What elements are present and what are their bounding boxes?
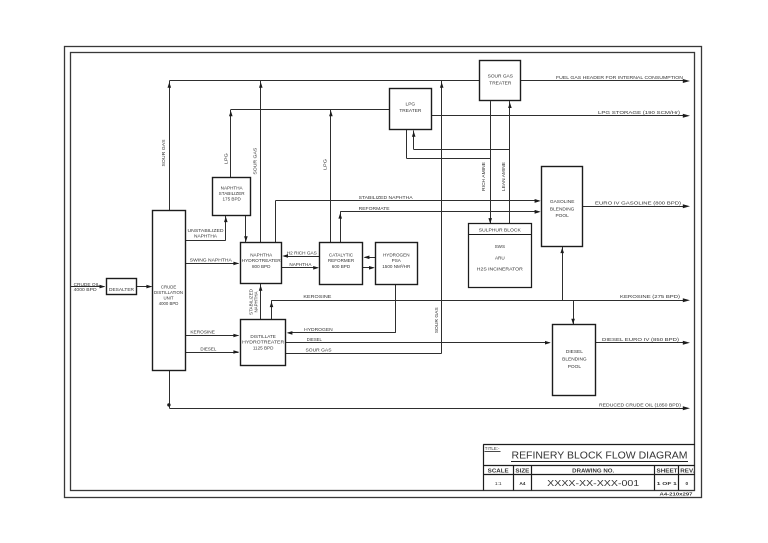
svg-text:TITLE:-: TITLE:- — [485, 446, 500, 451]
svg-text:FUEL GAS HEADER FOR INTERNAL C: FUEL GAS HEADER FOR INTERNAL CONSUMPTION — [556, 75, 684, 81]
wire LPG feed header (y=109.5) — [231, 109, 390, 111]
unit DESALTER — [107, 279, 137, 295]
svg-text:NAPHTHA: NAPHTHA — [221, 185, 244, 190]
svg-text:800 BPD: 800 BPD — [252, 264, 271, 269]
wire lean amine branch to LPG treater — [414, 149, 510, 151]
svg-text:LPG: LPG — [323, 159, 328, 170]
unit DISTILLATE HYDROTREATER — [241, 320, 286, 366]
unit CATALYTIC REFORMER — [320, 243, 363, 285]
svg-text:KEROSINE (275 BPD): KEROSINE (275 BPD) — [620, 294, 680, 300]
unit SULPHUR BLOCK — [469, 224, 532, 288]
wire desalter to CDU — [136, 286, 152, 288]
wire hydrogen PSA to reformer — [365, 257, 376, 259]
svg-text:REFINERY BLOCK FLOW DIAGRAM: REFINERY BLOCK FLOW DIAGRAM — [512, 450, 688, 461]
svg-text:LPG: LPG — [406, 102, 416, 108]
svg-text:LPG: LPG — [223, 153, 228, 164]
junction dot reduced crude elbow — [167, 403, 170, 406]
svg-text:STABILIZED NAPHTHA: STABILIZED NAPHTHA — [359, 195, 414, 201]
arrow stabilized naphtha into gasoline pool — [535, 199, 541, 203]
svg-text:H2S INCINERATOR: H2S INCINERATOR — [477, 267, 524, 272]
wire LPG storage product line — [431, 115, 684, 117]
svg-text:BLENDING: BLENDING — [562, 357, 587, 363]
wire fuel gas header (y=81) — [169, 80, 684, 82]
svg-text:NAPHTHA: NAPHTHA — [289, 262, 312, 268]
unit HYDROGEN PSA — [376, 243, 418, 285]
page outer border — [65, 47, 702, 498]
svg-text:600 BPD: 600 BPD — [332, 264, 351, 269]
svg-text:SIZE: SIZE — [515, 469, 530, 475]
svg-text:H2 RICH GAS: H2 RICH GAS — [287, 251, 317, 257]
wire euro iv gasoline product line — [583, 206, 685, 208]
wire NHT sour gas riser — [260, 81, 262, 242]
wire DHT stabilized naphtha to NHT — [260, 284, 262, 320]
svg-text:STABILIZER: STABILIZER — [219, 191, 246, 196]
svg-text:UNIT: UNIT — [164, 295, 174, 300]
wire stabilized naphtha product line — [275, 200, 538, 202]
unit GASOLINE BLENDING POOL — [542, 167, 583, 247]
svg-text:BLENDING: BLENDING — [550, 206, 575, 212]
svg-text:REDUCED CRUDE OIL (1850 BPD): REDUCED CRUDE OIL (1850 BPD) — [599, 403, 681, 409]
svg-text:KEROSINE: KEROSINE — [190, 330, 215, 336]
wire swing naphtha from CDU — [185, 263, 238, 265]
svg-text:PSA: PSA — [392, 258, 402, 263]
wire rich amine from LPG treater — [406, 129, 408, 158]
svg-text:HYDROTREATER: HYDROTREATER — [242, 258, 282, 263]
svg-text:SCALE: SCALE — [488, 469, 510, 475]
wire reformate product line — [340, 211, 538, 213]
svg-text:LEAN AMINE: LEAN AMINE — [501, 162, 506, 191]
wire unstabilized naphtha from CDU — [185, 240, 226, 242]
unit NAPHTHA STABILIZER — [213, 178, 251, 216]
svg-text:1:1: 1:1 — [495, 481, 502, 487]
svg-text:DIESEL: DIESEL — [200, 346, 216, 352]
svg-text:CRUDE: CRUDE — [161, 284, 176, 289]
wire rich amine line — [490, 101, 492, 224]
wire net gas reformer to PSA — [363, 267, 374, 269]
svg-text:ARU: ARU — [495, 255, 505, 260]
svg-text:0: 0 — [685, 481, 688, 487]
wire reduced crude oil line — [169, 371, 171, 408]
svg-text:SWING NAPHTHA: SWING NAPHTHA — [190, 258, 233, 264]
wire DHT sour gas line — [285, 353, 441, 355]
wire reformer reformate riser — [340, 212, 342, 242]
unit DIESEL BLENDING POOL — [553, 325, 596, 396]
svg-text:SWS: SWS — [495, 244, 505, 249]
svg-text:LPG STORAGE (190 SCM/Hr): LPG STORAGE (190 SCM/Hr) — [598, 110, 681, 116]
page inner border — [71, 53, 695, 491]
svg-text:4000 BPD: 4000 BPD — [74, 287, 98, 293]
wire crude oil feed — [71, 286, 105, 288]
wire diesel CDU to DHT — [185, 352, 238, 354]
svg-text:XXXX-XX-XXX-001: XXXX-XX-XXX-001 — [547, 479, 639, 488]
svg-text:SULPHUR BLOCK: SULPHUR BLOCK — [479, 228, 522, 234]
svg-text:NAPHTHA: NAPHTHA — [253, 291, 258, 313]
svg-text:1 OF 1: 1 OF 1 — [657, 481, 677, 487]
wire stabilizer bottoms to NHT — [245, 215, 247, 242]
svg-text:NAPHTHA: NAPHTHA — [194, 233, 218, 239]
svg-text:DISTILLATION: DISTILLATION — [154, 290, 183, 295]
svg-text:HYDROGEN: HYDROGEN — [383, 252, 410, 257]
svg-text:DIESEL: DIESEL — [566, 349, 583, 355]
wire stabilizer LPG riser — [230, 110, 232, 178]
svg-text:DISTILLATE: DISTILLATE — [250, 334, 275, 339]
svg-text:KEROSINE: KEROSINE — [303, 294, 331, 300]
svg-text:RICH AMINE: RICH AMINE — [481, 162, 486, 191]
title block frame — [483, 444, 695, 446]
wire kerosine product line — [272, 300, 685, 302]
svg-text:NAPHTHA: NAPHTHA — [250, 252, 273, 257]
svg-text:4000 BPD: 4000 BPD — [159, 301, 179, 306]
svg-text:DIESEL EURO IV (850 BPD): DIESEL EURO IV (850 BPD) — [602, 337, 679, 343]
wire main sour gas riser — [441, 81, 443, 353]
svg-text:A4-210x297: A4-210x297 — [660, 492, 694, 497]
unit SOUR GAS TREATER — [480, 61, 521, 101]
svg-text:POOL: POOL — [555, 213, 569, 219]
unit LPG TREATER — [390, 89, 432, 130]
svg-text:REFORMER: REFORMER — [328, 258, 355, 263]
svg-text:CATALYTIC: CATALYTIC — [329, 252, 354, 257]
svg-text:DESALTER: DESALTER — [109, 287, 135, 293]
svg-text:SOUR GAS: SOUR GAS — [161, 140, 166, 167]
svg-text:A4: A4 — [519, 481, 525, 487]
svg-text:SOUR GAS: SOUR GAS — [253, 148, 258, 175]
svg-text:175 BPD: 175 BPD — [222, 197, 241, 202]
wire H2 rich gas reformer to NHT — [285, 256, 320, 258]
wire naphtha NHT to reformer — [281, 267, 317, 269]
wire DHT kerosine riser — [271, 300, 273, 320]
svg-text:SOUR GAS: SOUR GAS — [306, 348, 332, 354]
svg-text:HYDROGEN: HYDROGEN — [304, 327, 333, 333]
wire diesel DHT to diesel pool — [285, 342, 549, 344]
svg-text:EURO IV GASOLINE (800 BPD): EURO IV GASOLINE (800 BPD) — [595, 201, 681, 207]
svg-text:POOL: POOL — [568, 364, 582, 370]
wire kerosine branch to diesel pool — [573, 300, 575, 324]
svg-text:1500 NM³/HR: 1500 NM³/HR — [382, 264, 411, 269]
svg-text:TREATER: TREATER — [489, 80, 512, 86]
svg-text:SOUR GAS: SOUR GAS — [434, 307, 439, 333]
svg-text:DIESEL: DIESEL — [307, 337, 322, 343]
wire hydrogen PSA to DHT — [395, 284, 397, 333]
svg-text:DRAWING NO.: DRAWING NO. — [572, 469, 615, 475]
arrow reformate into gasoline pool — [535, 210, 541, 214]
svg-text:SOUR GAS: SOUR GAS — [488, 73, 513, 79]
wire kerosine branch to gasoline pool — [562, 246, 564, 300]
wire NHT stabilized naphtha riser — [275, 201, 277, 242]
unit CRUDE DISTILLATION UNIT — [153, 211, 186, 371]
svg-text:REFORMATE: REFORMATE — [359, 206, 390, 212]
svg-text:SHEET: SHEET — [657, 469, 678, 475]
svg-text:CRUDE OIL: CRUDE OIL — [74, 282, 100, 288]
wire reformer LPG riser — [330, 110, 332, 243]
unit NAPHTHA HYDROTREATER — [241, 243, 282, 284]
wire diesel euro iv product line — [596, 342, 684, 344]
wire lean amine line — [509, 101, 511, 224]
svg-text:TREATER: TREATER — [399, 108, 422, 114]
svg-text:GASOLINE: GASOLINE — [550, 199, 575, 205]
wire CDU sour gas riser — [169, 81, 171, 211]
svg-text:1125 BPD: 1125 BPD — [253, 345, 274, 350]
svg-text:REV.: REV. — [680, 469, 695, 475]
svg-text:HYDROTREATER: HYDROTREATER — [242, 340, 285, 345]
wire kerosine CDU to DHT — [185, 335, 238, 337]
svg-text:UNSTABILIZED: UNSTABILIZED — [188, 228, 225, 234]
